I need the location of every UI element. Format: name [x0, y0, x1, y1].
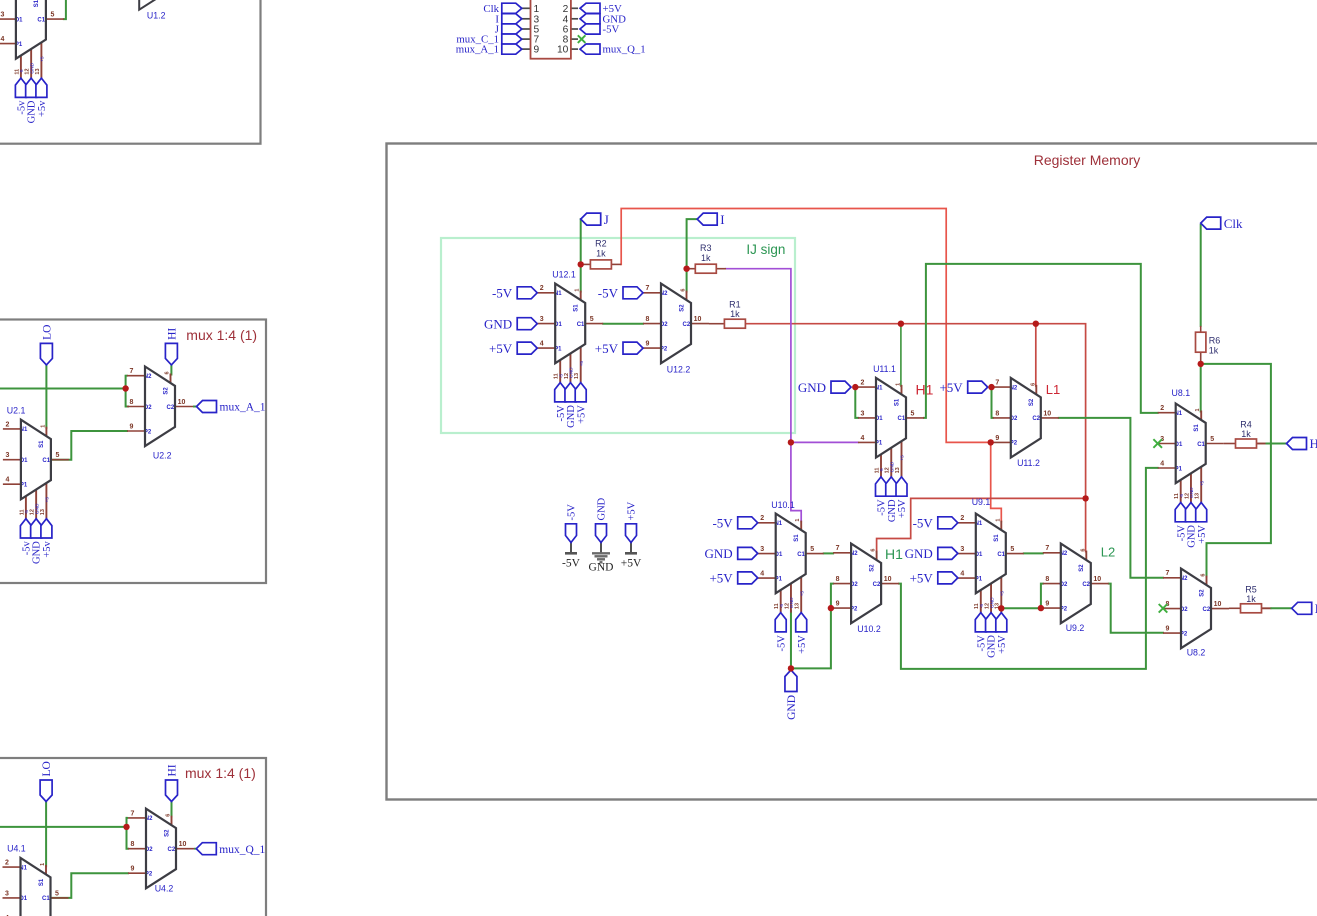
svg-text:mux 1:4 (1): mux 1:4 (1)	[186, 327, 257, 343]
svg-text:5: 5	[1210, 436, 1214, 443]
svg-text:12: 12	[25, 68, 31, 74]
svg-text:H1: H1	[916, 382, 934, 398]
svg-text:+5V: +5V	[797, 635, 808, 654]
svg-text:+5: +5	[45, 497, 51, 503]
svg-text:C2: C2	[1032, 416, 1040, 422]
svg-text:13: 13	[895, 467, 901, 473]
svg-text:7: 7	[995, 380, 999, 387]
svg-text:5: 5	[590, 316, 594, 323]
svg-text:5: 5	[810, 546, 814, 553]
svg-text:U12.2: U12.2	[667, 365, 691, 375]
svg-text:6: 6	[165, 371, 171, 374]
svg-text:11: 11	[874, 468, 880, 474]
svg-text:5: 5	[50, 12, 54, 19]
svg-text:S1: S1	[39, 878, 45, 886]
svg-text:3: 3	[760, 546, 764, 553]
svg-text:13: 13	[35, 68, 41, 74]
svg-text:9: 9	[534, 45, 540, 56]
svg-text:8: 8	[995, 410, 999, 417]
svg-text:S2: S2	[163, 387, 169, 395]
svg-text:S1: S1	[574, 304, 580, 312]
svg-text:+5V: +5V	[997, 635, 1008, 654]
svg-text:I: I	[720, 212, 724, 227]
svg-text:-5V: -5V	[598, 285, 619, 300]
svg-text:+5V: +5V	[621, 558, 642, 570]
svg-text:5: 5	[911, 410, 915, 417]
svg-text:7: 7	[836, 545, 840, 552]
svg-text:1: 1	[40, 425, 46, 428]
svg-text:1: 1	[40, 863, 46, 866]
svg-text:S2: S2	[1029, 398, 1035, 406]
svg-text:C1: C1	[797, 552, 805, 558]
svg-text:2: 2	[960, 515, 964, 522]
svg-text:3: 3	[5, 452, 9, 459]
svg-text:U1.2: U1.2	[147, 11, 166, 21]
svg-text:1: 1	[896, 383, 902, 386]
svg-text:13: 13	[40, 509, 46, 515]
svg-text:C2: C2	[873, 582, 881, 588]
svg-text:S1: S1	[994, 534, 1000, 542]
svg-text:7: 7	[1166, 570, 1170, 577]
svg-text:11: 11	[14, 69, 20, 75]
svg-text:6: 6	[166, 814, 172, 817]
svg-text:U11.1: U11.1	[873, 364, 896, 374]
svg-text:U11.2: U11.2	[1017, 458, 1040, 468]
svg-text:S2: S2	[679, 304, 685, 312]
svg-text:11: 11	[19, 509, 25, 515]
svg-text:HI: HI	[167, 764, 179, 776]
svg-text:4: 4	[5, 477, 9, 484]
svg-text:IJ sign: IJ sign	[746, 242, 785, 257]
svg-text:GND: GND	[786, 695, 798, 720]
svg-text:S2: S2	[1199, 589, 1205, 597]
svg-text:U12.1: U12.1	[552, 270, 576, 280]
svg-text:4: 4	[1160, 460, 1164, 467]
svg-text:12: 12	[564, 373, 570, 379]
svg-text:R4: R4	[1240, 420, 1252, 430]
svg-text:C1: C1	[42, 458, 50, 464]
svg-text:7: 7	[131, 810, 135, 817]
svg-text:U9.2: U9.2	[1066, 623, 1085, 633]
svg-text:1k: 1k	[701, 253, 711, 263]
svg-text:12: 12	[30, 509, 36, 515]
svg-text:9: 9	[1166, 626, 1170, 633]
svg-text:1k: 1k	[1241, 429, 1251, 439]
svg-text:4: 4	[960, 571, 964, 578]
svg-text:+5V: +5V	[489, 341, 513, 356]
svg-text:1k: 1k	[596, 249, 606, 259]
svg-text:+5v: +5v	[37, 100, 48, 117]
svg-text:S1: S1	[34, 0, 40, 7]
svg-text:C2: C2	[167, 405, 175, 411]
svg-text:S1: S1	[39, 440, 45, 448]
svg-text:J: J	[604, 212, 609, 227]
svg-text:2: 2	[540, 285, 544, 292]
svg-text:L1: L1	[1046, 382, 1060, 397]
svg-text:HI: HI	[1310, 436, 1317, 451]
svg-text:+5: +5	[799, 591, 805, 597]
svg-text:+5: +5	[579, 361, 585, 367]
svg-text:-5V: -5V	[492, 285, 513, 300]
svg-text:5: 5	[55, 890, 59, 897]
svg-text:S1: S1	[894, 398, 900, 406]
svg-text:1: 1	[995, 519, 1001, 522]
svg-text:C1: C1	[1197, 442, 1205, 448]
svg-text:C1: C1	[577, 322, 585, 328]
svg-text:10: 10	[179, 841, 187, 848]
svg-text:3: 3	[5, 890, 9, 897]
svg-text:U10.1: U10.1	[771, 500, 795, 510]
svg-text:10: 10	[884, 576, 892, 583]
svg-text:R3: R3	[700, 243, 712, 253]
svg-text:13: 13	[574, 373, 580, 379]
svg-text:9: 9	[130, 423, 134, 430]
svg-text:S2: S2	[164, 829, 170, 837]
svg-text:GND: GND	[597, 497, 608, 520]
svg-text:1: 1	[534, 4, 540, 15]
svg-text:10: 10	[1043, 410, 1051, 417]
svg-text:-5V: -5V	[712, 515, 733, 530]
svg-text:mux_Q_1: mux_Q_1	[603, 44, 646, 56]
svg-text:9: 9	[1045, 601, 1049, 608]
svg-text:8: 8	[131, 841, 135, 848]
svg-text:6: 6	[1080, 549, 1086, 552]
svg-text:4: 4	[0, 36, 4, 43]
svg-text:-5V: -5V	[776, 635, 787, 652]
svg-text:+5V: +5V	[576, 405, 587, 424]
svg-text:6: 6	[1030, 383, 1036, 386]
svg-text:7: 7	[646, 285, 650, 292]
svg-text:6: 6	[681, 289, 687, 292]
svg-text:H1: H1	[885, 546, 903, 562]
svg-text:12: 12	[885, 467, 891, 473]
svg-text:+5V: +5V	[627, 501, 638, 520]
svg-text:LO: LO	[41, 761, 53, 776]
svg-text:7: 7	[130, 368, 134, 375]
svg-text:-5V: -5V	[913, 515, 934, 530]
svg-text:Register Memory: Register Memory	[1034, 152, 1141, 168]
svg-text:11: 11	[554, 373, 560, 379]
svg-text:C2: C2	[1082, 582, 1090, 588]
svg-text:11: 11	[1174, 493, 1180, 499]
svg-text:11: 11	[974, 603, 980, 609]
svg-text:S2: S2	[1079, 564, 1085, 572]
svg-text:C1: C1	[898, 416, 906, 422]
svg-text:12: 12	[984, 603, 990, 609]
svg-text:8: 8	[646, 316, 650, 323]
svg-text:5: 5	[55, 452, 59, 459]
svg-text:U10.2: U10.2	[857, 624, 881, 634]
svg-text:9: 9	[836, 601, 840, 608]
svg-text:+5: +5	[40, 56, 46, 62]
svg-text:mux_A_1: mux_A_1	[456, 44, 499, 56]
svg-text:7: 7	[1045, 545, 1049, 552]
svg-text:10: 10	[1093, 576, 1101, 583]
svg-text:12: 12	[784, 603, 790, 609]
svg-text:S2: S2	[869, 564, 875, 572]
svg-text:U9.1: U9.1	[972, 497, 991, 507]
svg-text:6: 6	[871, 549, 877, 552]
svg-text:C2: C2	[1203, 607, 1211, 613]
svg-text:+5V: +5V	[910, 571, 934, 586]
svg-text:9: 9	[131, 866, 135, 873]
svg-text:mux_A_1: mux_A_1	[220, 402, 266, 414]
svg-text:-5V: -5V	[562, 558, 581, 570]
svg-text:2: 2	[1160, 405, 1164, 412]
svg-text:+5V: +5V	[939, 380, 963, 395]
svg-text:6: 6	[1201, 574, 1207, 577]
svg-text:1: 1	[575, 289, 581, 292]
svg-text:10: 10	[1214, 601, 1222, 608]
svg-text:2: 2	[760, 515, 764, 522]
svg-text:R6: R6	[1209, 336, 1221, 346]
svg-text:R5: R5	[1245, 585, 1257, 595]
svg-text:10: 10	[694, 316, 702, 323]
svg-text:GND: GND	[705, 546, 733, 561]
svg-text:10: 10	[178, 399, 186, 406]
svg-text:C1: C1	[997, 552, 1005, 558]
svg-text:C2: C2	[683, 322, 691, 328]
svg-text:2: 2	[5, 860, 9, 867]
svg-text:mux 1:4 (1): mux 1:4 (1)	[185, 765, 256, 781]
svg-text:Clk: Clk	[1224, 216, 1243, 231]
svg-text:13: 13	[1195, 493, 1201, 499]
svg-text:+5: +5	[1199, 480, 1205, 486]
svg-text:9: 9	[995, 435, 999, 442]
svg-text:C2: C2	[168, 847, 176, 853]
svg-text:R2: R2	[595, 239, 607, 249]
svg-text:GND: GND	[589, 562, 614, 574]
svg-text:GND: GND	[798, 380, 826, 395]
svg-text:3: 3	[540, 316, 544, 323]
svg-text:8: 8	[1045, 576, 1049, 583]
svg-text:+5V: +5V	[595, 341, 619, 356]
svg-text:U8.1: U8.1	[1172, 388, 1191, 398]
svg-text:1k: 1k	[1209, 346, 1219, 356]
svg-text:GND: GND	[905, 546, 933, 561]
svg-text:4: 4	[540, 341, 544, 348]
svg-text:8: 8	[836, 576, 840, 583]
svg-text:2: 2	[563, 4, 569, 15]
svg-text:8: 8	[130, 399, 134, 406]
svg-text:4: 4	[760, 571, 764, 578]
svg-text:1: 1	[1195, 408, 1201, 411]
svg-text:S1: S1	[1194, 424, 1200, 432]
svg-text:1: 1	[795, 519, 801, 522]
svg-text:-5V: -5V	[567, 504, 578, 521]
svg-text:C1: C1	[37, 17, 45, 23]
svg-text:3: 3	[0, 12, 4, 19]
svg-text:+5: +5	[900, 455, 906, 461]
svg-text:S1: S1	[794, 534, 800, 542]
svg-text:4: 4	[861, 435, 865, 442]
svg-text:L2: L2	[1101, 545, 1115, 560]
svg-text:+5V: +5V	[709, 571, 733, 586]
svg-text:U4.2: U4.2	[155, 884, 174, 894]
svg-text:1k: 1k	[730, 309, 740, 319]
svg-text:2: 2	[5, 421, 9, 428]
svg-text:2: 2	[861, 380, 865, 387]
svg-text:LO: LO	[42, 325, 54, 340]
svg-text:5: 5	[1010, 546, 1014, 553]
svg-text:3: 3	[960, 546, 964, 553]
svg-text:C1: C1	[42, 896, 50, 902]
svg-text:11: 11	[774, 603, 780, 609]
svg-text:+5V: +5V	[1197, 525, 1208, 544]
svg-text:R1: R1	[729, 300, 741, 310]
svg-text:U8.2: U8.2	[1187, 648, 1206, 658]
svg-text:GND: GND	[484, 316, 512, 331]
svg-text:13: 13	[795, 603, 801, 609]
svg-text:U2.1: U2.1	[7, 405, 26, 415]
svg-text:+5V: +5V	[897, 499, 908, 518]
svg-text:3: 3	[861, 410, 865, 417]
svg-text:-5V: -5V	[603, 24, 620, 36]
svg-text:10: 10	[557, 45, 569, 56]
svg-text:U4.1: U4.1	[7, 844, 26, 854]
svg-text:mux_Q_1: mux_Q_1	[219, 844, 265, 856]
svg-text:1k: 1k	[1246, 594, 1256, 604]
svg-text:+5: +5	[1000, 591, 1006, 597]
svg-text:9: 9	[646, 341, 650, 348]
svg-text:12: 12	[1184, 493, 1190, 499]
svg-text:U2.2: U2.2	[153, 450, 172, 460]
svg-text:+5v: +5v	[42, 540, 53, 557]
svg-text:HI: HI	[167, 328, 179, 340]
